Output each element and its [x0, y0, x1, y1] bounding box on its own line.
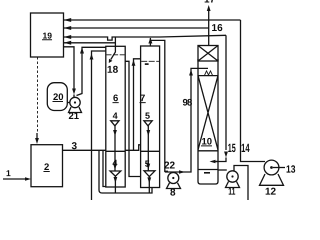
svg-text:12: 12 [265, 187, 277, 198]
line 3 from box 2 [62, 145, 140, 151]
svg-text:19: 19 [43, 31, 53, 41]
arrow right on pump 8 line [179, 170, 185, 174]
line 15 down arrow [224, 152, 228, 158]
column 6 [106, 46, 125, 187]
svg-text:22: 22 [164, 161, 176, 172]
label 20 underline [52, 101, 63, 103]
line 14 vertical [241, 20, 266, 162]
arrow left into column 10 [210, 160, 216, 164]
column 7 level tick [145, 63, 149, 65]
svg-text:14: 14 [241, 141, 250, 155]
line V2 left of column 6 down to bottom bus [99, 150, 152, 193]
svg-text:11: 11 [228, 187, 235, 198]
pump 21 base [69, 107, 82, 112]
tube 18 into column 6 [111, 37, 116, 60]
pump 21 feed line from box 19 [64, 47, 74, 89]
arrow 1 [25, 177, 31, 181]
arrow into box 19 line3 [64, 35, 71, 39]
label 10 underline [201, 145, 212, 147]
svg-text:4: 4 [112, 158, 117, 168]
svg-text:17: 17 [204, 0, 216, 6]
line B riser from line 3 to column 6 [92, 51, 106, 200]
line B2 riser from line 3 to column 7 [134, 59, 141, 151]
pump 12 center dot [270, 166, 273, 169]
bus line 3 (to line 15) with hop at tube 18 [64, 35, 226, 40]
pump 8 base [167, 183, 181, 189]
column 7 level dashes [141, 60, 159, 62]
pump 11 [227, 171, 238, 182]
column 7 upper funnel arrow line [147, 126, 149, 171]
svg-text:5: 5 [145, 111, 150, 121]
bus line 2 (stream 16) [64, 27, 209, 29]
line B2 up arrow [132, 60, 136, 66]
bus line 4 (to tube 18) [64, 42, 116, 44]
line 1 into box 2 [3, 178, 27, 180]
label 19 underline [42, 39, 52, 41]
column 7 lower funnel drain arrow [148, 177, 150, 193]
column 6 lower funnel 4 [110, 171, 121, 176]
line 15 into column 10 [216, 158, 226, 162]
pump 12 base [260, 174, 284, 185]
pump 8 suction line and discharge [165, 68, 208, 172]
svg-text:16: 16 [212, 23, 224, 34]
svg-text:18: 18 [107, 65, 119, 76]
pump 8 riser up arrow [189, 70, 193, 76]
line 15 vertical [225, 35, 227, 150]
vessel 20 [47, 83, 67, 111]
svg-text:3: 3 [71, 141, 77, 152]
column 7 upper funnel 5 [144, 121, 152, 126]
label 2 underline [43, 171, 49, 173]
box 19 [31, 13, 64, 57]
label 7 underline [139, 102, 145, 104]
pump 21 discharge line A to column 6 [77, 47, 106, 95]
line A up arrow [80, 48, 84, 54]
column 10 level tick [204, 172, 210, 174]
arrow into box 2 top [35, 138, 39, 144]
column 6 lower funnel drain arrow [114, 176, 116, 193]
column 7 [141, 46, 160, 188]
line B up arrow [90, 54, 94, 60]
svg-text:8: 8 [170, 188, 176, 199]
label 6 underline [112, 102, 118, 104]
column 10 packing X [198, 76, 218, 150]
column 6 upper funnel arrow line [114, 126, 116, 171]
column 10 packing top divider [198, 75, 218, 77]
pump 11 suction from column 10 [218, 169, 227, 171]
pump 8 [168, 173, 179, 184]
arrow into box 19 line4 [64, 41, 71, 45]
svg-text:4: 4 [113, 111, 118, 121]
svg-text:21: 21 [68, 111, 79, 122]
column 10 level divider [198, 169, 218, 171]
U tube column 6 to column 7 [125, 61, 140, 176]
pump 12 [264, 160, 279, 175]
tube 18 tip arrow [109, 59, 113, 63]
box 2 [31, 145, 63, 187]
arrow 17 up [207, 5, 211, 11]
column 7 divider [141, 150, 160, 152]
svg-text:8: 8 [187, 98, 192, 109]
column 7 lower funnel 5 [144, 171, 155, 177]
column 7 top tap to bus 3 [149, 38, 151, 46]
pump 21 [70, 97, 80, 107]
tap up arrow [148, 38, 152, 44]
column 6 divider [106, 150, 125, 152]
svg-text:15: 15 [228, 141, 236, 155]
arrow into box 19 line1 [64, 18, 71, 22]
column 10 body [198, 59, 218, 184]
arrow into box 19 line2 [64, 26, 71, 30]
column 6 upper funnel 4 [111, 121, 119, 126]
svg-text:1: 1 [6, 168, 11, 178]
line 22 branch from column 7 top [150, 40, 168, 171]
wire vessel 20 to pump 21 [67, 102, 70, 104]
column 10 spray nozzle M [205, 71, 213, 75]
column 6 level dashes [107, 54, 125, 56]
pump 11 discharge [234, 166, 248, 201]
column 10 condenser X box [198, 46, 218, 62]
bus line 1 (to box 19 from line 14) [64, 19, 241, 21]
svg-text:13: 13 [286, 164, 296, 176]
column 10 packing bottom divider [198, 150, 218, 152]
svg-text:5: 5 [145, 159, 150, 169]
arrow down into pump 21 [72, 89, 76, 95]
pump 11 base [226, 182, 240, 188]
riser 17 [208, 9, 210, 46]
line 13 [273, 167, 285, 169]
line V3 stub to column 6 bottom [103, 150, 106, 186]
dashed line from box 19 to box 2 [37, 57, 39, 133]
